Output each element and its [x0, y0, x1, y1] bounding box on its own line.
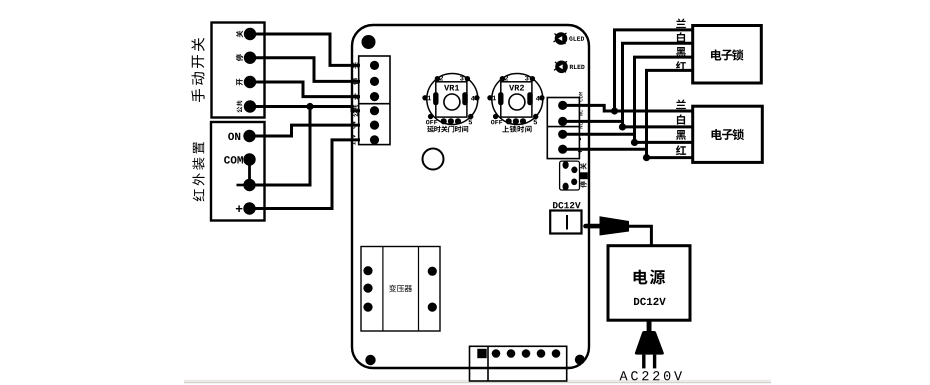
PCB board outline — [352, 25, 589, 368]
junction white — [619, 123, 626, 130]
AC plug — [635, 320, 664, 368]
wire lock1 blue — [615, 30, 693, 110]
plated hole — [423, 149, 444, 170]
wire J2-3 black — [563, 134, 693, 142]
J2 pin labels — [578, 92, 583, 153]
lock 2 label — [712, 129, 745, 140]
J1 pin labels — [351, 62, 359, 145]
manual switch terminal labels — [236, 30, 243, 112]
wire close (MS-1 to J1-1) — [250, 34, 360, 65]
canvas bottom edge rule — [184, 380, 771, 383]
electronic lock 1 box — [693, 26, 762, 84]
lock 1 label — [711, 49, 744, 60]
AC220V label — [620, 371, 683, 380]
connector J3 (bottom edge) — [469, 346, 568, 381]
wire stop (MS-2 to J1-2) — [250, 58, 360, 82]
mounting pad bottom-left — [365, 355, 375, 365]
junction red — [643, 154, 650, 161]
DC plug — [586, 216, 630, 235]
electronic lock 2 box — [693, 106, 763, 162]
junction common — [306, 103, 313, 110]
infrared device box — [211, 122, 265, 221]
wire DC plug to power box — [629, 226, 651, 245]
wire open (MS-3 to J1-3) — [250, 82, 360, 97]
connector DC12V — [550, 211, 581, 234]
lock2 wire color labels — [676, 99, 686, 155]
VR1 label — [427, 126, 468, 133]
potentiometer VR2 — [487, 74, 544, 125]
wire J2-4 red — [563, 149, 693, 157]
power supply box — [608, 246, 690, 321]
VR2 label — [502, 126, 531, 133]
mounting pad bottom-right — [575, 355, 585, 365]
manual switch label — [191, 38, 204, 102]
terminal block J2 (PCB right) — [547, 98, 579, 159]
wire J2-2 white — [563, 121, 693, 127]
infrared device label — [192, 142, 204, 201]
LED RLED — [554, 61, 585, 72]
wire common to IR-minus — [250, 107, 311, 186]
manual switch box — [212, 23, 265, 118]
potentiometer VR1 — [422, 74, 479, 125]
manual switch terminals — [244, 28, 256, 113]
T1 label — [389, 285, 412, 292]
junction blue — [611, 107, 618, 114]
wire lock1 red — [647, 70, 693, 156]
wire plus (IR-4 to J1-6) — [250, 140, 361, 209]
jumper K1 — [560, 161, 588, 191]
K1 labels — [580, 163, 586, 188]
transformer T1 — [361, 247, 440, 332]
wire lock1 black — [635, 57, 693, 141]
infrared terminal labels — [224, 133, 245, 212]
mounting pad top-left — [362, 35, 376, 49]
wire lock1 white — [623, 43, 693, 125]
junction black — [631, 139, 638, 146]
power supply label — [634, 270, 666, 285]
power supply DC12V label — [634, 298, 666, 305]
wire J2-1 blue — [563, 105, 693, 111]
infrared terminals — [243, 130, 255, 215]
wire common (MS-4 to J1-4) — [250, 107, 360, 111]
LED GLED — [554, 33, 585, 44]
lock1 wire color labels — [676, 18, 686, 70]
connector DC12V label — [553, 202, 581, 208]
wire ON (IR-1 to J1-5) — [250, 125, 361, 136]
terminal block J1 (PCB left) — [359, 56, 390, 145]
